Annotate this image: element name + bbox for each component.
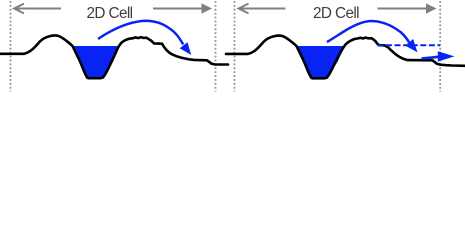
water fill (panel 1) xyxy=(73,46,119,78)
terrain surface line (panel 1) xyxy=(0,35,228,78)
water-level dashed extension line (panel 2) xyxy=(377,44,440,46)
outflow arrow shaft (panel 2) xyxy=(422,57,441,59)
water fill (panel 2) xyxy=(297,46,345,78)
measure arrow open head left (panel 1) xyxy=(14,4,24,14)
flow arc arrow (panel 2) xyxy=(327,21,409,42)
measure arrow left shaft (panel 1) xyxy=(16,8,62,10)
flow arc arrowhead (panel 1) xyxy=(180,42,192,55)
cell boundary dotted line right (panel 2) xyxy=(439,1,441,92)
measure arrow right shaft (panel 2) xyxy=(378,8,428,10)
measure arrow filled head right (panel 1) xyxy=(202,3,213,13)
outflow arrow head (panel 2) xyxy=(438,51,455,61)
terrain surface line (panel 2) xyxy=(226,36,465,79)
cell boundary dotted line right (panel 1) xyxy=(215,1,217,92)
flow arc arrow (panel 1) xyxy=(98,21,183,45)
svg-text:2D Cell: 2D Cell xyxy=(313,5,359,22)
measure arrow open head left (panel 2) xyxy=(239,4,249,14)
measure arrow left shaft (panel 2) xyxy=(240,8,286,10)
flow arc arrowhead (panel 2) xyxy=(405,39,417,52)
cell boundary dotted line left (panel 2) xyxy=(234,1,236,92)
measure arrow right shaft (panel 1) xyxy=(153,8,203,10)
cell boundary dotted line left (panel 1) xyxy=(10,1,12,92)
svg-text:2D Cell: 2D Cell xyxy=(87,5,133,22)
measure arrow filled head right (panel 2) xyxy=(426,3,437,13)
